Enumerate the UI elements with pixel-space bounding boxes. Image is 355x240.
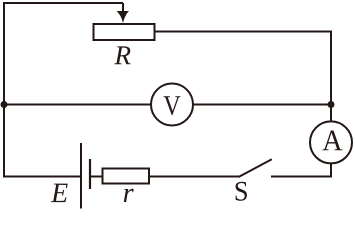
wire: voltmeter branch right xyxy=(193,104,332,106)
label E xyxy=(51,184,68,203)
node: left junction xyxy=(1,101,8,108)
label A xyxy=(322,131,342,151)
slider arrow stem (rheostat wiper) xyxy=(122,3,124,14)
battery E positive plate (long) xyxy=(80,143,82,209)
ammeter A body xyxy=(310,121,352,163)
wire: resistor r to switch pivot xyxy=(149,176,239,178)
wire: rheostat right terminal to top-right corner, down to ammeter xyxy=(155,32,332,123)
battery E negative plate (short) xyxy=(89,159,91,189)
label S xyxy=(236,182,247,201)
label R xyxy=(114,46,130,64)
label r xyxy=(124,189,134,202)
rheostat R body xyxy=(94,24,155,40)
voltmeter V body xyxy=(151,84,193,126)
wire: battery short plate to resistor r xyxy=(90,176,103,178)
node: right junction xyxy=(328,101,335,108)
wire: ammeter bottom down and left to switch fixed contact xyxy=(271,163,331,176)
wire: voltmeter branch left xyxy=(4,104,152,106)
wire: left vertical and top horizontal to slider xyxy=(4,3,123,178)
label V xyxy=(164,96,181,115)
slider arrowhead of rheostat R xyxy=(117,11,130,23)
wire: bottom-left from left branch to battery xyxy=(4,176,81,178)
switch S blade (open) xyxy=(239,159,272,177)
resistor r body xyxy=(103,169,150,184)
